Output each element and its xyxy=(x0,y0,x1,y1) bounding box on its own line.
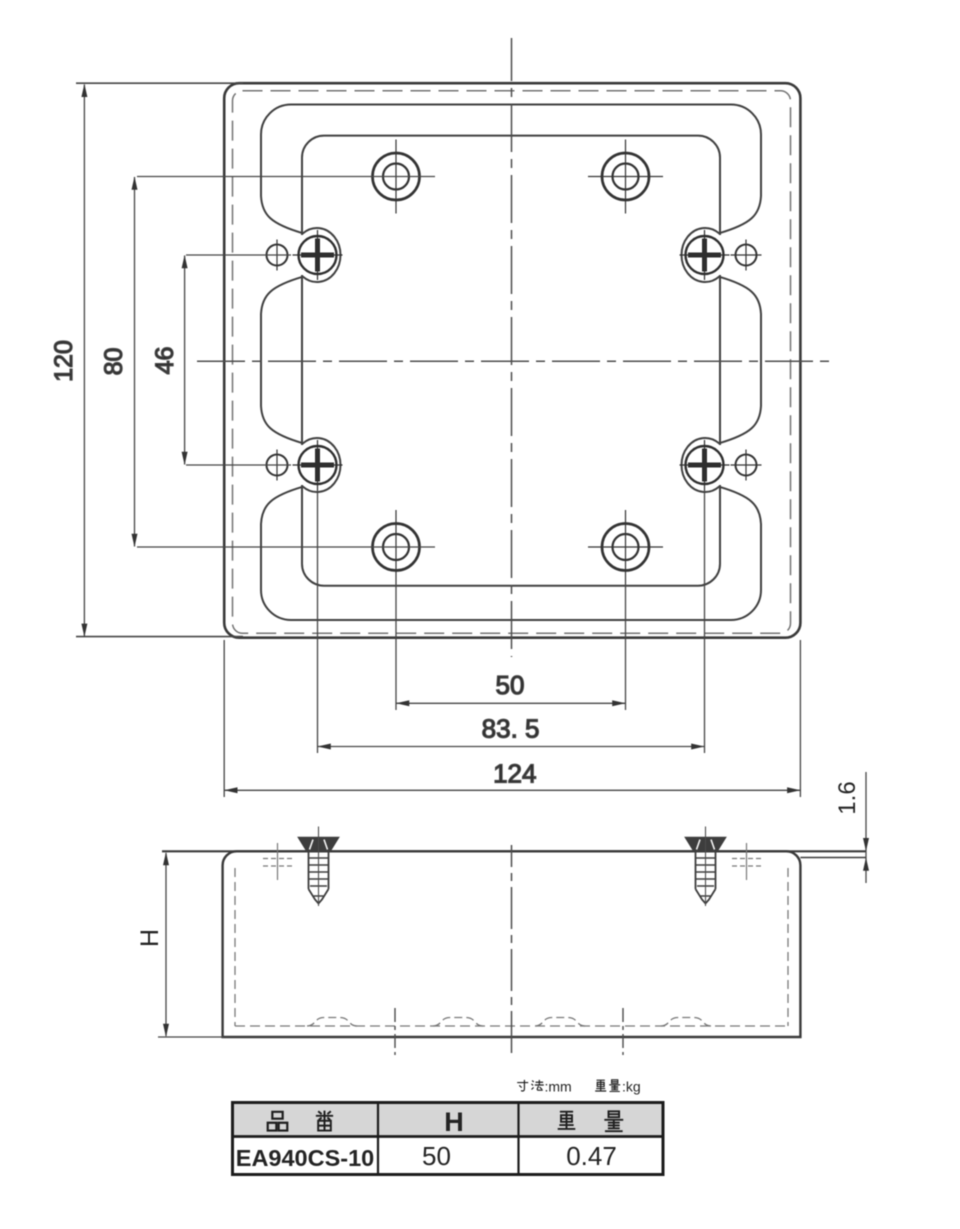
hidden inner wall left xyxy=(234,868,236,1026)
hidden box edge (dashed rect inside cover) xyxy=(233,91,791,634)
phillips cover screw top-left xyxy=(293,230,343,280)
svg-text:50: 50 xyxy=(422,1141,451,1171)
svg-text:83. 5: 83. 5 xyxy=(482,714,540,744)
dim 50 horizontal xyxy=(396,584,626,710)
phillips cover screw top-right xyxy=(680,230,730,280)
side screw right xyxy=(686,827,762,907)
middle raised-boss contour with screw bulges xyxy=(261,105,761,621)
svg-text:80: 80 xyxy=(100,348,128,376)
small side hole top-left xyxy=(267,240,288,271)
svg-text:50: 50 xyxy=(496,670,525,700)
svg-text::mm: :mm xyxy=(545,1079,572,1095)
units note: 寸法:mm 重量:kg xyxy=(517,1079,641,1095)
table frame xyxy=(233,1103,664,1175)
dim H vertical xyxy=(158,852,224,1037)
svg-text:0.47: 0.47 xyxy=(566,1141,617,1171)
dim 46 vertical xyxy=(182,255,291,465)
mounting screw hole A (top-left) xyxy=(373,140,420,214)
phillips cover screw bottom-right xyxy=(680,440,730,490)
small side hole bottom-right xyxy=(731,450,762,481)
svg-text:1.6: 1.6 xyxy=(834,781,861,814)
dim 120 vertical xyxy=(76,83,243,637)
plate thickness second line xyxy=(800,857,866,859)
hidden inner wall right xyxy=(787,868,789,1026)
svg-text::kg: :kg xyxy=(622,1079,641,1095)
dim 83.5 horizontal xyxy=(318,490,705,753)
centerline horizontal xyxy=(197,360,830,362)
hidden side hole near right screw xyxy=(746,843,748,880)
dim 124 horizontal xyxy=(224,640,800,797)
inner recess rectangle (interrupted by bulges) xyxy=(302,136,720,586)
centerline vertical xyxy=(511,38,513,657)
svg-text:H: H xyxy=(136,929,164,947)
side screw left xyxy=(263,827,339,907)
svg-text:120: 120 xyxy=(50,340,78,382)
hidden inner bottom line xyxy=(235,1025,788,1027)
top surface line extended xyxy=(162,850,867,852)
svg-text:H: H xyxy=(444,1107,464,1137)
dim 80 vertical xyxy=(132,177,436,548)
svg-text:124: 124 xyxy=(493,759,536,789)
knockout bump right pair xyxy=(535,1018,711,1027)
small side hole top-right xyxy=(731,240,762,271)
small side hole bottom-left xyxy=(267,450,288,481)
box body outline xyxy=(223,851,801,1037)
svg-text:EA940CS-10: EA940CS-10 xyxy=(236,1145,374,1171)
knockout bump left pair xyxy=(307,1018,483,1027)
knockout centerline right xyxy=(622,1008,624,1055)
dim 1.6 vertical xyxy=(863,772,869,883)
phillips cover screw bottom-left xyxy=(293,440,343,490)
mounting screw hole B (top-right) xyxy=(588,140,663,214)
mounting screw hole C (bottom-left) xyxy=(373,510,420,584)
svg-text:46: 46 xyxy=(151,347,179,375)
mounting screw hole D (bottom-right) xyxy=(588,510,663,584)
hidden side hole near left screw xyxy=(277,843,279,880)
knockout centerline left xyxy=(394,1008,396,1055)
header 品番 xyxy=(268,1111,624,1132)
outer cover plate outline 124x120 xyxy=(224,83,800,638)
side view centerline middle xyxy=(511,845,513,1057)
header 重量 xyxy=(558,1112,576,1129)
